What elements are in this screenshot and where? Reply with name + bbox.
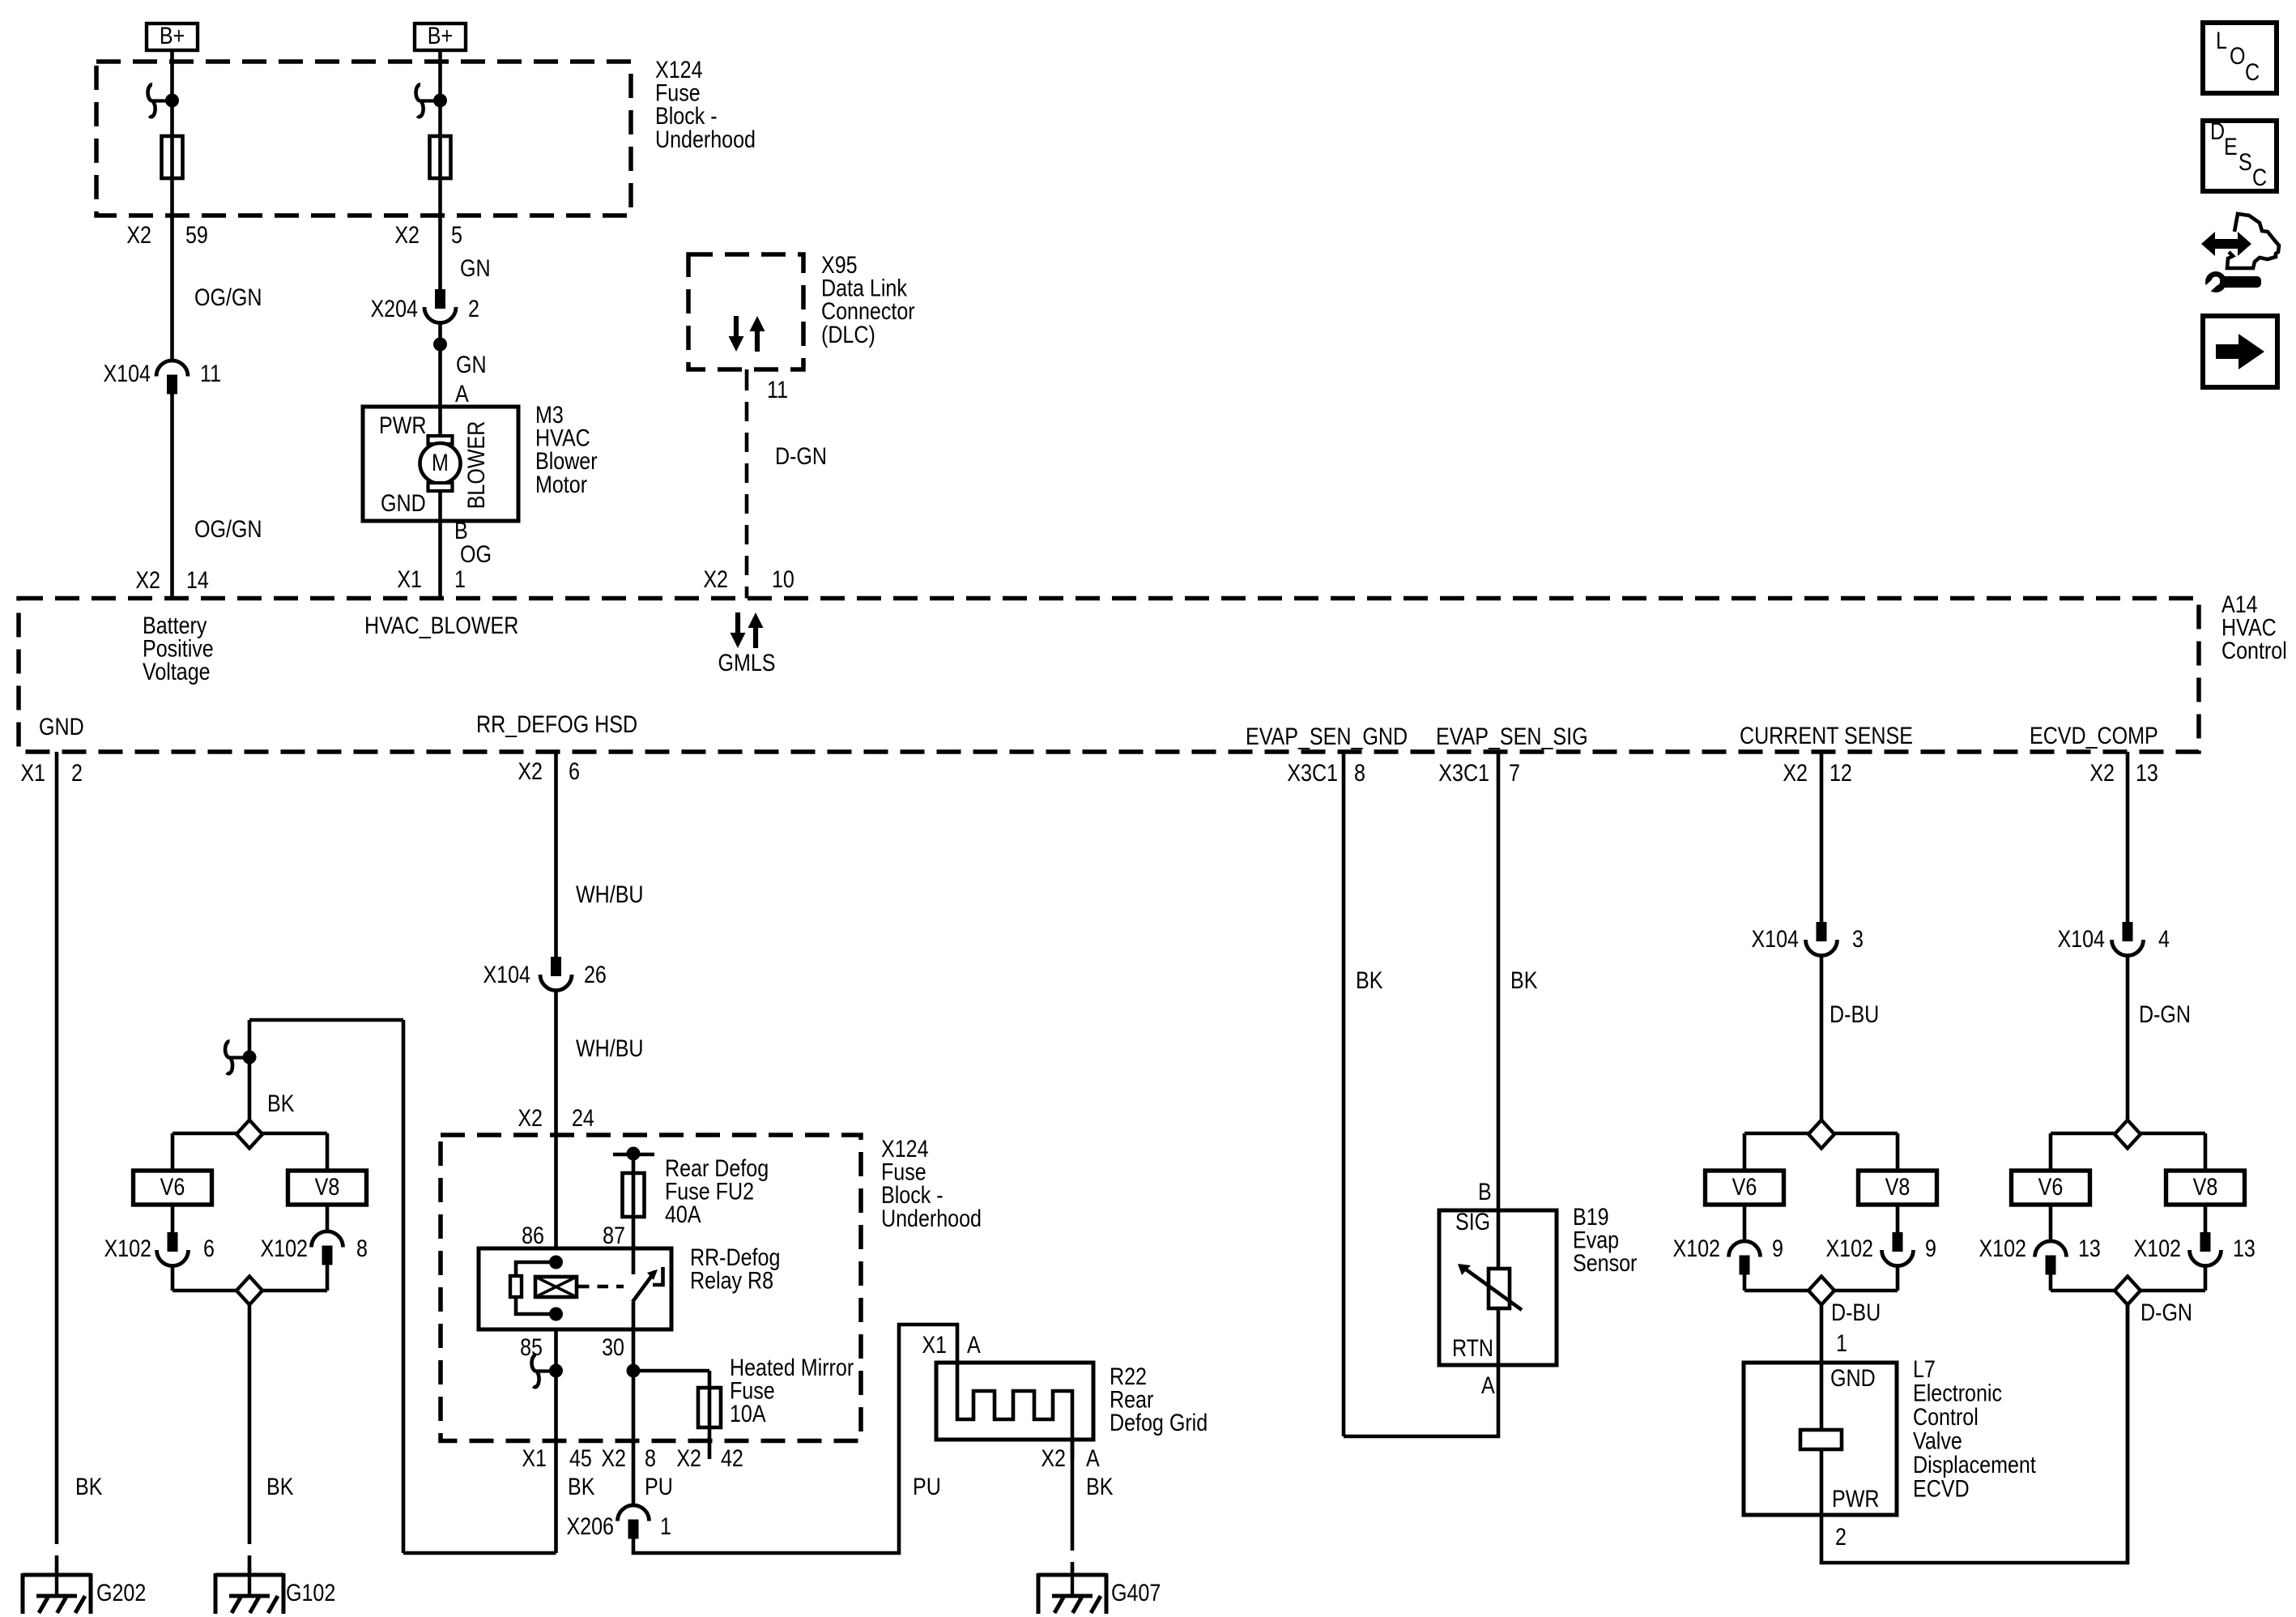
svg-text:WH/BU: WH/BU xyxy=(576,881,644,907)
svg-text:PWR: PWR xyxy=(379,412,426,438)
svg-text:X104: X104 xyxy=(1751,925,1799,952)
svg-text:1: 1 xyxy=(1836,1329,1847,1356)
svg-text:PWR: PWR xyxy=(1832,1485,1879,1512)
svg-text:42: 42 xyxy=(721,1444,743,1471)
svg-text:59: 59 xyxy=(185,221,208,248)
svg-text:O: O xyxy=(2230,42,2245,69)
svg-text:B+: B+ xyxy=(428,22,453,49)
svg-text:BK: BK xyxy=(1086,1473,1113,1500)
svg-text:RTN: RTN xyxy=(1452,1334,1493,1361)
svg-text:X102: X102 xyxy=(260,1235,308,1261)
svg-text:A: A xyxy=(967,1331,981,1358)
svg-text:13: 13 xyxy=(2233,1235,2256,1261)
svg-text:3: 3 xyxy=(1852,925,1864,952)
svg-text:X3C1: X3C1 xyxy=(1438,759,1489,786)
svg-text:1: 1 xyxy=(454,565,466,592)
svg-text:2: 2 xyxy=(71,759,83,786)
svg-text:8: 8 xyxy=(1354,759,1365,786)
svg-text:ECVD: ECVD xyxy=(1913,1475,1970,1502)
svg-text:G202: G202 xyxy=(96,1579,146,1606)
svg-text:GND: GND xyxy=(1830,1364,1876,1391)
svg-text:X1: X1 xyxy=(397,565,422,592)
svg-text:24: 24 xyxy=(572,1104,594,1131)
svg-text:X104: X104 xyxy=(103,360,151,386)
svg-text:BK: BK xyxy=(1356,966,1382,993)
svg-text:1: 1 xyxy=(660,1512,671,1539)
svg-text:S: S xyxy=(2238,148,2252,175)
svg-text:HVAC_BLOWER: HVAC_BLOWER xyxy=(364,612,518,638)
svg-text:D-BU: D-BU xyxy=(1831,1299,1881,1325)
svg-text:GN: GN xyxy=(456,351,487,378)
svg-text:11: 11 xyxy=(767,376,788,403)
svg-text:87: 87 xyxy=(603,1222,625,1248)
svg-text:D-GN: D-GN xyxy=(2141,1299,2192,1325)
svg-text:Valve: Valve xyxy=(1913,1427,1962,1454)
svg-text:BK: BK xyxy=(266,1473,293,1500)
svg-text:26: 26 xyxy=(584,961,607,988)
svg-text:X2: X2 xyxy=(1783,759,1808,786)
svg-text:D-BU: D-BU xyxy=(1830,1000,1879,1027)
svg-text:ECVD_COMP: ECVD_COMP xyxy=(2030,722,2158,749)
svg-text:D-GN: D-GN xyxy=(775,442,827,469)
svg-text:L7: L7 xyxy=(1913,1355,1936,1382)
svg-text:X2: X2 xyxy=(2089,759,2115,786)
svg-text:2: 2 xyxy=(468,295,479,322)
svg-text:GN: GN xyxy=(460,254,491,281)
svg-text:Control: Control xyxy=(2221,637,2287,663)
svg-text:BLOWER: BLOWER xyxy=(462,421,489,510)
svg-text:Motor: Motor xyxy=(535,471,587,497)
svg-text:12: 12 xyxy=(1830,759,1852,786)
svg-text:V8: V8 xyxy=(2193,1173,2218,1200)
svg-text:X102: X102 xyxy=(1672,1235,1720,1261)
svg-text:X3C1: X3C1 xyxy=(1287,759,1338,786)
svg-text:X1: X1 xyxy=(922,1331,947,1358)
svg-text:BK: BK xyxy=(568,1473,594,1500)
svg-text:X1: X1 xyxy=(522,1444,547,1471)
svg-text:Sensor: Sensor xyxy=(1573,1249,1637,1276)
svg-text:BK: BK xyxy=(1510,966,1537,993)
svg-text:X2: X2 xyxy=(703,565,728,592)
svg-text:10A: 10A xyxy=(730,1400,766,1427)
svg-text:E: E xyxy=(2224,133,2238,160)
svg-text:X204: X204 xyxy=(370,295,418,322)
svg-text:GND: GND xyxy=(39,713,84,740)
svg-text:8: 8 xyxy=(356,1235,368,1261)
svg-text:B+: B+ xyxy=(160,22,185,49)
svg-text:X102: X102 xyxy=(1979,1235,2026,1261)
svg-text:40A: 40A xyxy=(665,1201,701,1227)
svg-text:14: 14 xyxy=(186,566,209,593)
svg-text:L: L xyxy=(2216,27,2227,53)
svg-text:X2: X2 xyxy=(518,1104,543,1131)
svg-text:11: 11 xyxy=(200,360,221,386)
svg-text:V8: V8 xyxy=(315,1173,340,1200)
svg-text:OG/GN: OG/GN xyxy=(194,284,262,310)
svg-text:C: C xyxy=(2252,164,2267,190)
svg-text:X2: X2 xyxy=(135,566,160,593)
svg-text:X1: X1 xyxy=(20,759,45,786)
svg-text:Relay R8: Relay R8 xyxy=(690,1267,773,1294)
svg-text:X2: X2 xyxy=(601,1444,626,1471)
svg-text:V6: V6 xyxy=(160,1173,185,1200)
svg-text:PU: PU xyxy=(913,1473,941,1500)
svg-text:10: 10 xyxy=(772,565,794,592)
svg-text:RR_DEFOG HSD: RR_DEFOG HSD xyxy=(476,710,637,737)
svg-text:13: 13 xyxy=(2136,759,2158,786)
svg-text:6: 6 xyxy=(569,757,580,784)
svg-text:(DLC): (DLC) xyxy=(821,321,875,348)
svg-text:OG/GN: OG/GN xyxy=(194,515,262,542)
svg-text:X104: X104 xyxy=(483,961,530,988)
svg-text:X102: X102 xyxy=(104,1235,151,1261)
svg-text:SIG: SIG xyxy=(1455,1208,1490,1235)
svg-text:A: A xyxy=(1481,1372,1495,1398)
svg-text:D: D xyxy=(2210,117,2225,144)
svg-text:BK: BK xyxy=(75,1473,102,1500)
svg-text:7: 7 xyxy=(1509,759,1520,786)
svg-text:X2: X2 xyxy=(1041,1444,1066,1471)
svg-text:G102: G102 xyxy=(286,1579,335,1606)
svg-text:Defog Grid: Defog Grid xyxy=(1110,1409,1208,1436)
svg-text:WH/BU: WH/BU xyxy=(576,1035,644,1061)
svg-text:A: A xyxy=(1086,1444,1100,1471)
svg-text:D-GN: D-GN xyxy=(2139,1000,2191,1027)
svg-text:X2: X2 xyxy=(394,221,420,248)
svg-text:V8: V8 xyxy=(1885,1173,1910,1200)
svg-text:GMLS: GMLS xyxy=(718,649,775,676)
svg-text:6: 6 xyxy=(203,1235,215,1261)
svg-text:13: 13 xyxy=(2078,1235,2101,1261)
svg-text:EVAP_SEN_SIG: EVAP_SEN_SIG xyxy=(1436,723,1588,749)
svg-text:GND: GND xyxy=(381,489,426,516)
svg-text:X2: X2 xyxy=(676,1444,701,1471)
svg-text:M: M xyxy=(432,449,449,476)
svg-text:X104: X104 xyxy=(2057,925,2105,952)
svg-text:X2: X2 xyxy=(518,757,543,784)
svg-text:4: 4 xyxy=(2158,925,2170,952)
svg-text:86: 86 xyxy=(522,1222,544,1248)
svg-text:Electronic: Electronic xyxy=(1913,1380,2002,1406)
svg-text:2: 2 xyxy=(1835,1523,1847,1550)
svg-text:G407: G407 xyxy=(1111,1579,1161,1606)
svg-text:B: B xyxy=(1478,1178,1492,1205)
svg-text:45: 45 xyxy=(569,1444,592,1471)
svg-text:X2: X2 xyxy=(126,221,151,248)
svg-text:Displacement: Displacement xyxy=(1913,1451,2036,1478)
svg-text:OG: OG xyxy=(460,540,492,567)
svg-text:CURRENT SENSE: CURRENT SENSE xyxy=(1740,722,1913,749)
svg-text:Underhood: Underhood xyxy=(655,126,756,152)
svg-text:BK: BK xyxy=(267,1090,294,1116)
svg-text:8: 8 xyxy=(645,1444,656,1471)
svg-text:EVAP_SEN_GND: EVAP_SEN_GND xyxy=(1246,723,1408,749)
svg-text:PU: PU xyxy=(645,1473,673,1500)
svg-text:X102: X102 xyxy=(1825,1235,1873,1261)
svg-text:Control: Control xyxy=(1913,1403,1979,1430)
svg-text:X206: X206 xyxy=(566,1512,614,1539)
svg-text:Voltage: Voltage xyxy=(143,658,211,685)
svg-text:X102: X102 xyxy=(2133,1235,2181,1261)
svg-text:A: A xyxy=(455,380,469,407)
svg-text:30: 30 xyxy=(602,1333,624,1360)
svg-text:9: 9 xyxy=(1772,1235,1783,1261)
svg-text:Underhood: Underhood xyxy=(881,1205,982,1231)
svg-text:V6: V6 xyxy=(1732,1173,1757,1200)
svg-text:9: 9 xyxy=(1925,1235,1936,1261)
svg-text:C: C xyxy=(2245,58,2260,85)
svg-text:5: 5 xyxy=(451,221,462,248)
svg-text:V6: V6 xyxy=(2038,1173,2064,1200)
